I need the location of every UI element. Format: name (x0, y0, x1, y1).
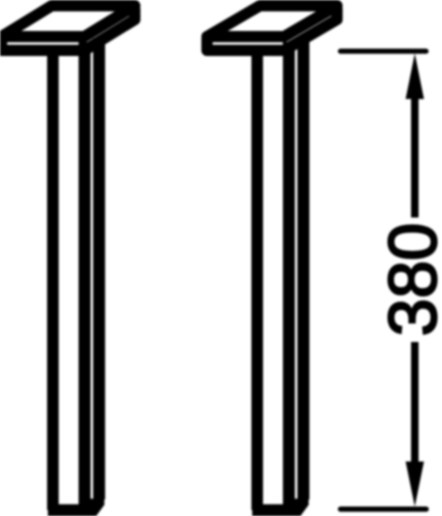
left leg: mounting plate side thickness edges (2, 8, 135, 50)
left leg: column right silhouette edge (93, 38, 105, 500)
dimension line lower segment (411, 342, 419, 464)
dimension arrowhead top (pointing up) (406, 54, 424, 100)
right leg: column right silhouette edge (297, 38, 309, 500)
right leg: column front-right corner edge (283, 42, 295, 510)
dimension arrowhead bottom (pointing down) (406, 462, 424, 507)
right leg: mounting plate side thickness edges (207, 8, 337, 50)
left leg: mounting plate top face (2, 6, 135, 37)
right leg: mounting plate top face (207, 6, 337, 37)
right leg: column bottom end bar (252, 504, 290, 516)
svg-text:380: 380 (375, 223, 442, 336)
right leg: column left edge (251, 45, 263, 510)
dimension extension tick bottom (341, 507, 427, 512)
dimension line upper segment (411, 96, 419, 218)
dimension extension tick top (341, 49, 427, 54)
left leg: column bottom-right bevel (83, 499, 104, 516)
left leg: column front-right corner edge (79, 42, 91, 510)
left leg: column left edge (47, 45, 59, 510)
right leg: column bottom-right bevel (287, 499, 308, 516)
left leg: column bottom end bar (48, 504, 86, 516)
